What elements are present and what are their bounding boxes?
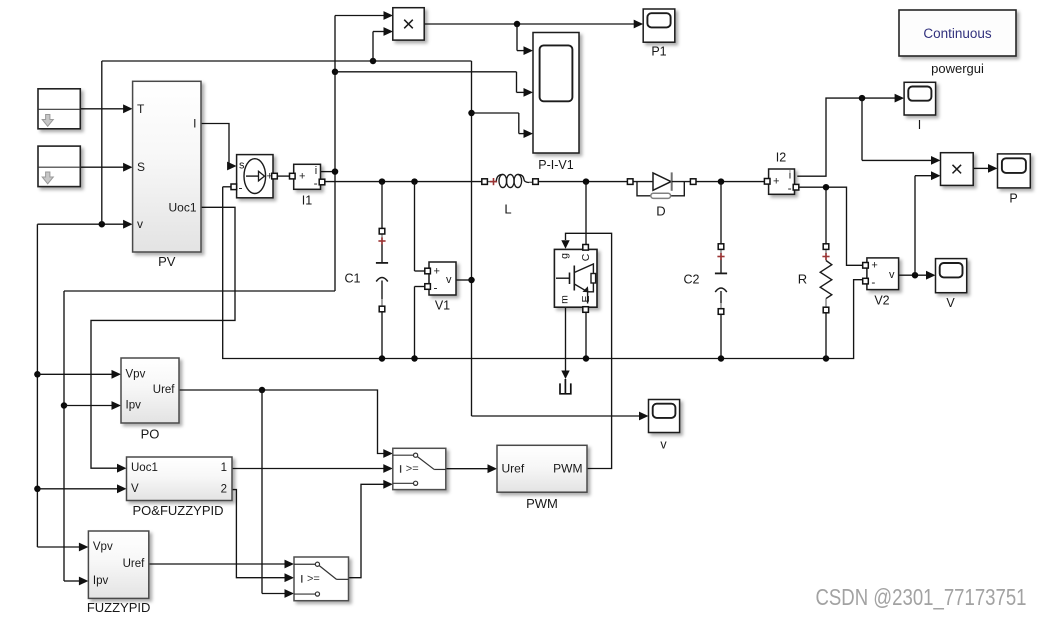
- svg-text:PWM: PWM: [526, 496, 558, 511]
- svg-text:C1: C1: [345, 272, 361, 286]
- wire source1 to PV T input: [80, 104, 132, 113]
- svg-text:C: C: [580, 253, 592, 261]
- source block input T (signal source with gray arrow icon): [38, 89, 80, 129]
- wire PO&FUZZYPID output 1 to switch1 input 2: [232, 464, 393, 473]
- node junction V1 output onto v-line: [468, 277, 475, 284]
- port square V1 +: [425, 268, 431, 274]
- svg-text:PV: PV: [158, 254, 176, 269]
- svg-text:-: -: [434, 281, 438, 295]
- svg-text:I1: I1: [302, 194, 312, 208]
- label V: [946, 296, 955, 310]
- svg-text:powergui: powergui: [931, 61, 984, 76]
- port square R top: [823, 244, 829, 250]
- node junction v-line to product1 second input: [370, 58, 377, 65]
- node junction i2 line to product2: [859, 95, 866, 102]
- watermark CSDN: [816, 584, 1027, 610]
- node junction top rail to V1 +: [411, 178, 418, 185]
- polarity mark + of C1: [378, 237, 385, 244]
- scope P-I-V1 (three inputs): [533, 33, 579, 154]
- wire i-line down-left to Ipv inputs: [64, 291, 335, 585]
- port square L right: [533, 179, 539, 185]
- wire IGBT emitter to bottom rail: [585, 311, 587, 358]
- wire branch v-line to P-I-V1 input 3: [472, 113, 534, 138]
- node junction V2 output to product2: [912, 272, 919, 279]
- subsystem PO (P&O MPPT): [121, 358, 179, 423]
- svg-text:PO&FUZZYPID: PO&FUZZYPID: [132, 503, 223, 518]
- svg-text:-: -: [788, 181, 792, 195]
- ground terminator below IGBT: [560, 379, 571, 394]
- svg-text:I: I: [193, 117, 196, 131]
- subsystem FUZZYPID (fuzzy PID MPPT): [88, 531, 148, 598]
- svg-text:Uoc1: Uoc1: [168, 200, 196, 214]
- polarity mark + of C2: [717, 253, 724, 260]
- wire PV I output to controlled current source s input: [201, 124, 237, 171]
- label V2: [874, 294, 889, 308]
- svg-text:V: V: [131, 483, 139, 495]
- label L: [504, 202, 511, 217]
- wire PO Uref output to switch1 input 1: [179, 390, 393, 458]
- svg-text:-: -: [314, 176, 318, 190]
- wire C1 branch from top rail: [381, 182, 383, 229]
- port square L left: [482, 179, 488, 185]
- label P: [1009, 192, 1017, 206]
- port square current source +: [272, 173, 278, 179]
- subsystem PV (solar panel model): [133, 81, 201, 252]
- svg-text:S: S: [137, 160, 145, 174]
- label PO&FUZZYPID: [132, 503, 223, 518]
- wire controlled current source + to I1 +: [276, 175, 291, 177]
- svg-text:Uref: Uref: [502, 462, 525, 476]
- label C1: [345, 272, 361, 286]
- svg-text:P-I-V1: P-I-V1: [538, 158, 573, 172]
- port square V2 +: [863, 263, 869, 269]
- svg-text:P: P: [1009, 192, 1017, 206]
- wire C2 branch from top rail: [720, 182, 722, 244]
- voltage measurement V1: [429, 262, 456, 295]
- node junction I2 - to R branch: [823, 184, 830, 191]
- wire branch to PO Vpv input: [37, 370, 121, 379]
- svg-text:C2: C2: [684, 273, 700, 287]
- svg-text:I2: I2: [776, 151, 786, 165]
- wire IGBT measurement m output down to ground: [561, 307, 569, 379]
- svg-text:V: V: [946, 296, 955, 310]
- label FUZZYPID: [87, 600, 151, 615]
- wire branch i-line to P-I-V1 input 2: [335, 72, 533, 97]
- svg-text:+: +: [434, 265, 440, 277]
- wire FUZZYPID Uref output to switch2 input 1: [149, 560, 294, 569]
- port square I2 +: [764, 179, 770, 185]
- wire Uoc1 from PV to PO&FUZZYPID Uoc1 input: [91, 207, 235, 472]
- wire V1 + sense branch from top rail: [415, 182, 427, 271]
- wire IGBT collector to top rail: [585, 182, 587, 245]
- wire I2 i output up to scope I: [797, 94, 904, 177]
- svg-text:Continuous: Continuous: [923, 26, 992, 41]
- label PV: [158, 254, 176, 269]
- port square V1 -: [425, 284, 431, 290]
- product block (multiply) P=V*I upper: [393, 8, 424, 40]
- wire C1 branch to bottom rail: [381, 312, 383, 359]
- svg-text:I: I: [918, 118, 921, 132]
- port square I2 -: [793, 184, 799, 190]
- label powergui: [931, 61, 984, 76]
- port square I1 +: [290, 173, 296, 179]
- svg-text:D: D: [656, 204, 665, 219]
- switch block 1 (MPPT mode switch): [393, 448, 446, 489]
- capacitor C2: [715, 250, 727, 311]
- svg-text:Ipv: Ipv: [126, 400, 142, 412]
- port square C1 bottom: [379, 306, 385, 312]
- svg-text:>=: >=: [406, 463, 419, 475]
- node junction product1 output to P-I-V1: [514, 21, 521, 28]
- wire R branch from I2 - junction: [825, 187, 827, 244]
- wire top power rail from diode D to I2 +: [696, 181, 766, 183]
- wire I2 - output to V2 + input: [797, 187, 864, 265]
- port square IGBT emitter E: [583, 307, 589, 313]
- svg-text:>=: >=: [307, 573, 320, 585]
- subsystem PWM generator: [497, 445, 587, 492]
- wire branch PO Uref down to switch2 input 3: [262, 390, 294, 598]
- scope P1: [643, 9, 675, 42]
- wire current source - return to bottom rail: [223, 186, 231, 188]
- subsystem PO&FUZZYPID (mode selector): [127, 457, 233, 501]
- svg-text:+: +: [871, 260, 877, 272]
- label v: [660, 438, 667, 452]
- svg-text:L: L: [504, 202, 511, 217]
- wire V1 - sense branch to bottom rail: [415, 287, 427, 359]
- label R: [798, 272, 807, 287]
- voltage measurement V2: [867, 258, 899, 290]
- svg-text:PO: PO: [141, 427, 160, 442]
- svg-text:V2: V2: [874, 294, 889, 308]
- current measurement I1: [294, 164, 321, 190]
- node v-junction on PV v wire: [99, 221, 106, 228]
- port square C2 bottom: [718, 309, 724, 315]
- svg-text:v: v: [889, 269, 895, 281]
- wire product1 output to scope P1: [424, 20, 643, 29]
- svg-text:-: -: [871, 275, 875, 289]
- switch block 2 (reference selector switch): [294, 557, 349, 601]
- port square R bottom: [823, 307, 829, 313]
- node junction v-line to PO&FUZZYPID V input: [34, 486, 41, 493]
- wire V2 output to scope V: [899, 271, 936, 280]
- svg-text:m: m: [559, 295, 571, 304]
- label C2: [684, 273, 700, 287]
- svg-text:g: g: [559, 253, 571, 259]
- wire branch to product2 input 1: [862, 98, 941, 165]
- svg-text:i: i: [789, 170, 791, 182]
- label PWM: [526, 496, 558, 511]
- wire v-line left vertical down to FUZZYPID Vpv: [37, 224, 88, 551]
- svg-text:2: 2: [221, 484, 227, 496]
- port square C1 top: [379, 228, 385, 234]
- node junction bottom rail C2: [718, 355, 725, 362]
- svg-text:FUZZYPID: FUZZYPID: [87, 600, 151, 615]
- wire R branch to bottom rail: [825, 313, 827, 359]
- svg-text:Uref: Uref: [153, 384, 176, 396]
- wire source2 to PV S input: [80, 163, 132, 172]
- wire switch2 output up to switch1 input 3: [349, 480, 393, 578]
- inductor L: [487, 174, 534, 187]
- controlled current source (PV output interface): [237, 155, 273, 198]
- svg-text:T: T: [137, 102, 145, 116]
- node junction i-line to P-I-V1 second input: [332, 69, 339, 76]
- resistor R: [820, 250, 832, 308]
- wire v signal net: up from v junction, across top, down right side to scope v: [102, 61, 649, 420]
- wire PO&FUZZYPID output 2 to switch2 input 2: [232, 490, 294, 582]
- wire switch1 output to PWM block Uref input: [446, 464, 497, 473]
- wire v feedback into PV v input: [37, 220, 132, 229]
- current measurement I2: [769, 169, 795, 195]
- svg-text:1: 1: [221, 462, 227, 474]
- source block input S (signal source with gray arrow icon): [38, 146, 80, 187]
- label PO: [141, 427, 160, 442]
- svg-text:P1: P1: [651, 45, 666, 59]
- wire V1 output to v-line junction: [456, 279, 472, 281]
- wire product2 output to scope P: [973, 164, 997, 173]
- wire i signal net: I1 i output up to product1 input 1: [321, 11, 394, 291]
- label I2: [776, 151, 786, 165]
- scope v (duty cycle): [649, 400, 680, 433]
- node junction v-line to PO Vpv input: [34, 371, 41, 378]
- diode D with snubber: [633, 172, 690, 198]
- svg-text:E: E: [580, 295, 592, 302]
- wire top power rail from inductor L to diode D: [537, 181, 628, 183]
- node junction top rail to IGBT collector: [583, 178, 590, 185]
- svg-text:R: R: [798, 272, 807, 287]
- node junction top rail to C2: [718, 178, 725, 185]
- wire PWM output up to IGBT gate: [561, 233, 611, 468]
- port square V2 -: [863, 278, 869, 284]
- port square I1 -: [319, 179, 325, 185]
- svg-text:-: -: [239, 180, 243, 194]
- svg-text:v: v: [446, 274, 452, 286]
- label P1: [651, 45, 666, 59]
- label P-I-V1: [538, 158, 573, 172]
- svg-text:Vpv: Vpv: [93, 541, 113, 553]
- wire C2 branch to bottom rail: [720, 313, 722, 359]
- svg-text:Uoc1: Uoc1: [131, 462, 158, 474]
- svg-text:PWM: PWM: [553, 462, 582, 476]
- node junction PO Uref to switch2 input 3: [259, 387, 266, 394]
- wire branch product1 output to P-I-V1 input 1: [517, 24, 533, 55]
- wire branch v-line to product1 input 2: [373, 27, 393, 61]
- port square D left: [627, 179, 633, 185]
- svg-text:v: v: [137, 217, 143, 231]
- scope I: [904, 82, 936, 115]
- IGBT switch block: [554, 249, 597, 307]
- svg-text:v: v: [660, 438, 667, 452]
- node junction bottom rail IGBT emitter: [583, 355, 590, 362]
- svg-text:V1: V1: [435, 299, 450, 313]
- port square D right: [690, 179, 696, 185]
- node junction i-line to PO Ipv input: [61, 402, 68, 409]
- scope V: [936, 259, 967, 293]
- node junction i-line at I1 output: [332, 168, 339, 175]
- svg-text:Ipv: Ipv: [93, 575, 109, 587]
- product block (multiply) P=V*I right: [941, 153, 974, 186]
- wire top power rail from I1 - to inductor L: [323, 181, 482, 183]
- svg-text:s: s: [239, 159, 245, 171]
- svg-text:Uref: Uref: [123, 558, 146, 570]
- scope P: [998, 154, 1031, 188]
- svg-text:Vpv: Vpv: [126, 368, 146, 380]
- node junction bottom rail R: [823, 355, 830, 362]
- polarity mark + of R: [822, 253, 829, 260]
- wire branch V2 output up to product2 input 2: [915, 171, 941, 275]
- label D: [656, 204, 665, 219]
- node junction v-line to P-I-V1 scope third input: [468, 110, 475, 117]
- powergui block: [899, 10, 1016, 56]
- svg-text:CSDN @2301_77173751: CSDN @2301_77173751: [816, 584, 1027, 610]
- port square IGBT collector C: [583, 245, 589, 251]
- capacitor C1: [376, 234, 388, 308]
- label I: [918, 118, 921, 132]
- wire branch to PO&FUZZYPID V input: [37, 484, 126, 493]
- node junction bottom rail V1 -: [411, 355, 418, 362]
- svg-text:+: +: [773, 176, 779, 188]
- port square current source -: [231, 184, 237, 190]
- label V1: [435, 299, 450, 313]
- wire branch to PO Ipv input: [64, 401, 121, 410]
- port square C2 top: [718, 244, 724, 250]
- polarity mark + of L: [490, 178, 497, 185]
- node junction bottom rail C1: [379, 355, 386, 362]
- label I1: [302, 194, 312, 208]
- wire bottom power rail: [223, 187, 864, 359]
- node junction top rail to C1: [379, 178, 386, 185]
- svg-text:+: +: [299, 170, 305, 182]
